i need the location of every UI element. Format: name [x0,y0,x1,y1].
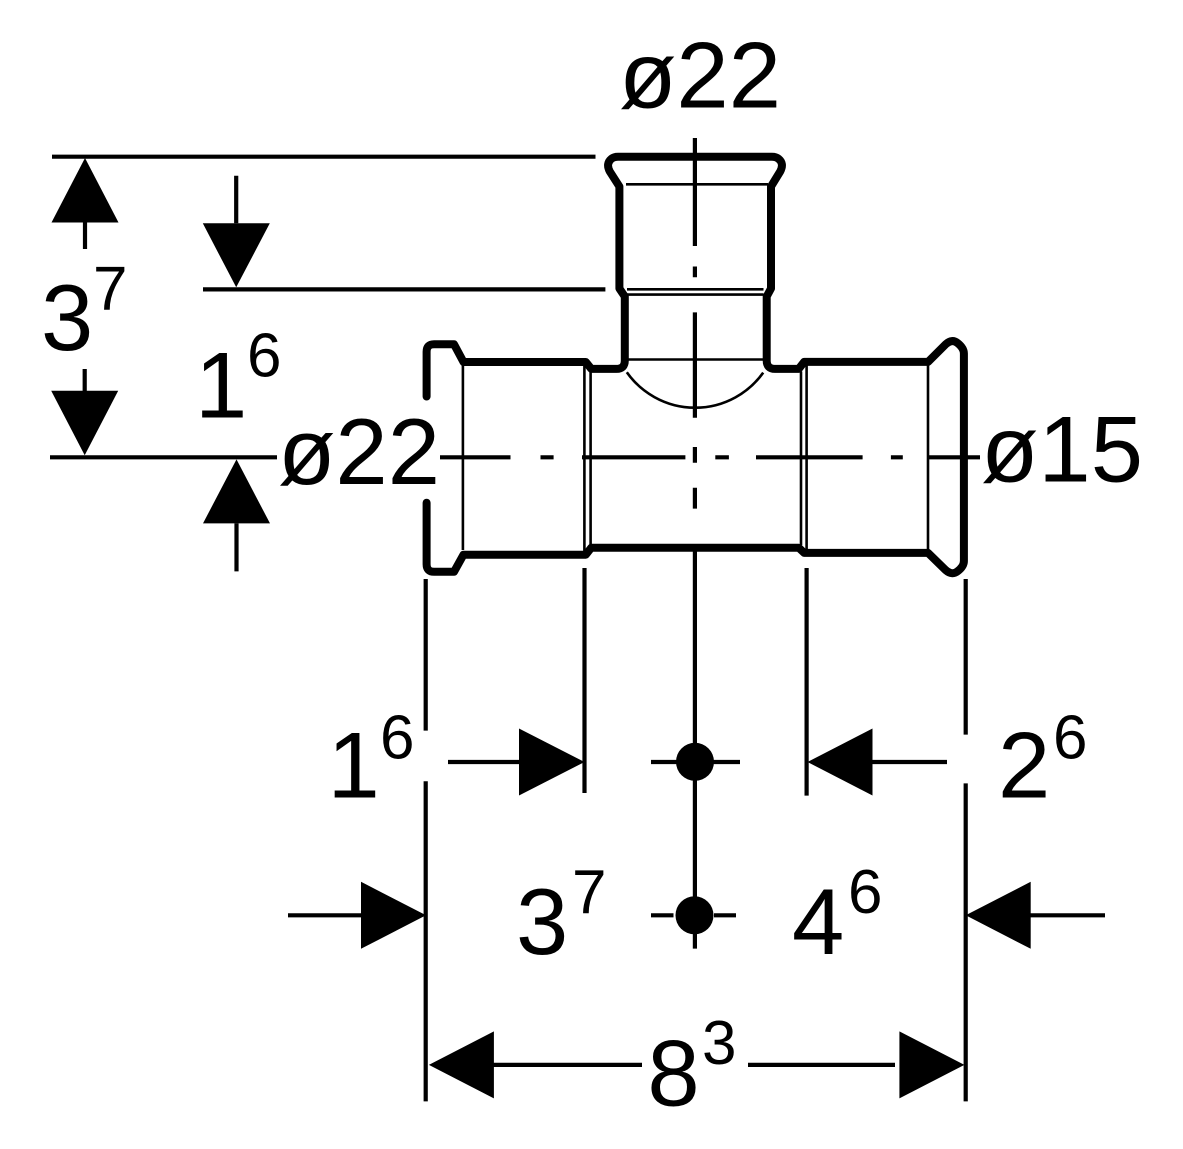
extension line top (branch top level) [52,155,596,159]
svg-text:6: 6 [247,322,281,391]
branch inner top line across [627,358,764,361]
svg-text:ø22: ø22 [619,23,781,128]
row1 dim 2-6: left arrow and tail [808,729,873,796]
row3 dim 8-3: right arrow [748,1063,895,1067]
svg-text:8: 8 [647,1021,699,1126]
svg-text:2: 2 [998,713,1050,818]
svg-text:ø22: ø22 [278,399,440,504]
dim 3-7 down arrow [83,369,87,392]
svg-text:7: 7 [93,255,127,324]
fitting body outline [427,157,964,574]
dim 3-7 up arrow [52,158,119,223]
svg-text:ø15: ø15 [981,397,1143,502]
svg-text:6: 6 [848,858,882,927]
svg-text:6: 6 [380,704,414,773]
horizontal center line dash-dot [440,455,980,459]
extension line bottom right lip [964,579,968,1101]
row3 dim 8-3: left arrow [429,1031,494,1098]
row2 short line right of dot [714,913,736,917]
vertical center line dash-dot [693,138,697,949]
svg-text:1: 1 [195,333,247,438]
svg-text:3: 3 [41,265,93,370]
row2 center dot [676,896,714,934]
extension line mid (branch collar bottom level) [203,287,605,291]
right socket stop lines [801,364,807,552]
svg-text:7: 7 [572,858,606,927]
left socket stop lines [584,364,590,552]
row1 dim 1-6: line and right arrow [448,760,520,764]
left socket inner line [462,363,465,550]
row1 short line right of dot [714,760,741,764]
crotch arc [627,372,763,408]
svg-text:1: 1 [328,713,380,818]
center line left solid segment [50,455,277,459]
row1 center dot [676,743,714,781]
branch socket stop lines [627,289,764,294]
svg-text:6: 6 [1053,704,1087,773]
extension line bottom left lip [424,579,428,1101]
dim 1-6 down arrow [234,176,238,224]
row1 short line left of dot [651,760,678,764]
row2 dim 3-7: tail and right arrow [288,913,362,917]
svg-text:3: 3 [516,869,568,974]
extension line bottom right socket [804,568,808,796]
right socket inner line [927,363,930,551]
row2 short line left of dot [651,913,674,917]
svg-text:3: 3 [702,1009,736,1078]
row2 dim 4-6: left arrow and tail [966,882,1031,949]
extension line bottom left socket [582,568,586,793]
dim 1-6 up arrow [203,459,270,523]
branch bead inner line [626,183,768,186]
svg-text:4: 4 [792,869,844,974]
